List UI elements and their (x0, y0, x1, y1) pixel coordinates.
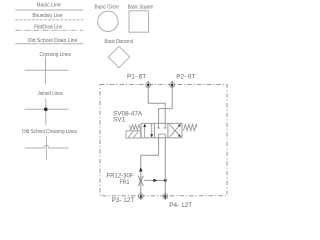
svg-text:Basic Diamond: Basic Diamond (105, 39, 134, 45)
svg-text:P4- 12T: P4- 12T (169, 202, 192, 209)
svg-text:Old School Crossing Lines: Old School Crossing Lines (22, 129, 77, 135)
boundary box (dash-dot manifold outline) (100, 85, 227, 196)
valve SV1 right spring (184, 124, 198, 130)
svg-text:Old School Drain Line: Old School Drain Line (28, 38, 78, 44)
joined lines junction dot (44, 108, 48, 112)
basic circle shape (98, 11, 118, 31)
svg-text:P1- 6T: P1- 6T (127, 74, 146, 81)
valve SV1 body (141, 123, 182, 137)
valve SV1 solenoid box (126, 131, 141, 138)
svg-text:Boundary Line: Boundary Line (33, 13, 63, 19)
basic line sample (15, 9, 83, 11)
valve SV1 left spring (129, 125, 140, 130)
joined lines symbol (25, 98, 69, 124)
wire P2 to valve port A (159, 87, 173, 123)
junction dot (164, 179, 167, 182)
wire valve port to P4 (164, 138, 166, 193)
pilot arrow right (153, 179, 157, 182)
svg-text:Basic Circle: Basic Circle (95, 5, 120, 11)
svg-text:Basic Square: Basic Square (128, 5, 154, 11)
svg-text:Joined Lines: Joined Lines (38, 91, 64, 97)
port P3 (138, 192, 143, 200)
svg-text:Basic Line: Basic Line (37, 2, 61, 8)
wire valve port to FR1 (left drop with jog) (141, 138, 159, 193)
valve SV1 left position arrows (143, 124, 153, 138)
basic square shape (129, 11, 149, 32)
wire P1 to valve port B (148, 87, 165, 123)
crossing lines symbol (25, 57, 69, 85)
svg-text:Crossing Lines: Crossing Lines (40, 52, 72, 58)
old school drain line sample (15, 43, 83, 45)
port P1 (146, 81, 151, 89)
flow direction arrow up (139, 167, 142, 171)
basic diamond shape (108, 46, 129, 67)
flow regulator FR1 orifice arcs (138, 176, 144, 186)
pilot/drain line sample (15, 29, 83, 31)
valve SV1 center position blocked ports and bracket (157, 123, 167, 137)
svg-text:FR1: FR1 (120, 179, 130, 186)
pilot line FR1 to P4 branch with arrow (144, 179, 166, 181)
boundary line sample (15, 19, 83, 21)
port P2 (170, 81, 175, 89)
old school crossing lines symbol (25, 136, 69, 160)
svg-text:P2- 6T: P2- 6T (176, 74, 195, 81)
valve SV1 right position crossed arrows (170, 124, 181, 137)
port P4 (163, 192, 168, 200)
svg-text:SV1: SV1 (113, 117, 126, 124)
svg-text:P3- 12T: P3- 12T (112, 197, 135, 204)
svg-text:Pilot/Drain Line: Pilot/Drain Line (34, 25, 62, 31)
